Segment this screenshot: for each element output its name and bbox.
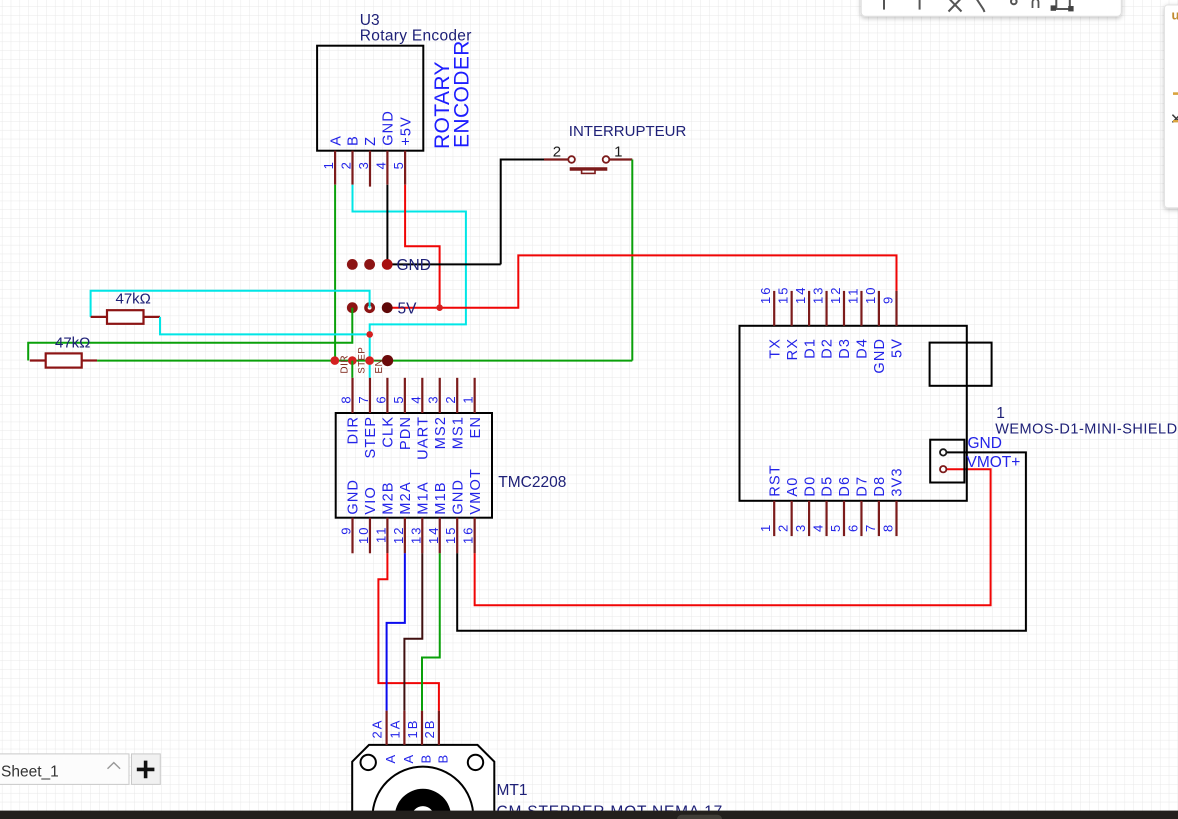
svg-text:1: 1 <box>461 394 476 403</box>
rotary encoder U3 body <box>317 46 423 151</box>
motor pin stub A <box>403 711 405 745</box>
net port 5V dots <box>347 302 393 313</box>
shield pin 10 stub <box>878 291 880 326</box>
svg-text:D8: D8 <box>872 476 888 497</box>
power connector pin GND circle <box>940 449 946 455</box>
svg-text:13: 13 <box>811 286 826 304</box>
shield pin 13 stub <box>825 291 827 326</box>
svg-text:2: 2 <box>339 160 354 169</box>
svg-text:UART: UART <box>416 416 432 460</box>
junction cyan STEP branch <box>366 331 373 338</box>
svg-text:5V: 5V <box>398 300 418 317</box>
wire M1A to motor 1A (dark) <box>404 553 422 710</box>
svg-text:B: B <box>435 754 450 764</box>
svg-text:2: 2 <box>776 523 791 532</box>
svg-text:47kΩ: 47kΩ <box>55 335 90 352</box>
svg-text:Sheet_1: Sheet_1 <box>1 763 59 780</box>
shield WEMOS-D1-MINI body <box>740 326 967 501</box>
wire encoder +5V (red) <box>405 185 440 308</box>
svg-text:6: 6 <box>845 523 860 532</box>
shield pin 3 stub <box>808 501 810 536</box>
svg-text:STEP: STEP <box>363 416 379 459</box>
shield pin 6 stub <box>860 501 862 536</box>
shield pin 11 stub <box>860 291 862 326</box>
wire 5V rail (red) <box>387 255 896 307</box>
svg-text:4: 4 <box>811 523 826 532</box>
motor pin stub A <box>386 711 388 745</box>
svg-text:15: 15 <box>443 526 458 544</box>
net port GND dots <box>347 259 393 270</box>
motor shaft hole ring <box>414 809 431 819</box>
svg-text:M2B: M2B <box>381 481 397 514</box>
switch pin 2 stub <box>544 158 568 160</box>
motor mounting hole right <box>468 755 483 770</box>
svg-text:5V: 5V <box>890 338 906 358</box>
svg-text:4: 4 <box>408 394 423 403</box>
svg-text:9: 9 <box>339 526 354 535</box>
svg-text:3V3: 3V3 <box>890 467 906 496</box>
svg-text:5: 5 <box>828 523 843 532</box>
U3 pin 1 (A) stub <box>334 151 336 185</box>
svg-text:+5V: +5V <box>398 116 414 146</box>
TMC2208 pin 10 stub <box>369 518 371 554</box>
right panel icon fragments <box>1170 8 1178 129</box>
shield pin 8 stub <box>895 501 897 536</box>
svg-text:B: B <box>346 135 362 146</box>
wire TMC VMOT to shield VMOT+ (red) <box>475 469 991 605</box>
wire TMC GND to shield GND (black) <box>457 452 1026 630</box>
wire M2A to motor 2A (blue) <box>387 553 405 710</box>
sheet tab Sheet_1 <box>0 754 129 785</box>
TMC2208 pin 1 stub <box>474 378 476 413</box>
svg-text:A: A <box>401 754 416 764</box>
svg-text:10: 10 <box>863 286 878 304</box>
shield USB connector box <box>930 343 992 386</box>
wire switch pin2 to GND (black) <box>501 160 544 265</box>
svg-text:7: 7 <box>356 394 371 403</box>
svg-text:ENCODER: ENCODER <box>451 40 474 148</box>
TMC2208 pin 9 stub <box>351 518 353 554</box>
svg-text:M1B: M1B <box>433 481 449 514</box>
svg-text:1: 1 <box>321 160 336 169</box>
svg-text:2B: 2B <box>422 719 437 739</box>
sheet tab chevron <box>108 763 121 769</box>
TMC2208 pin 13 stub <box>421 518 423 554</box>
svg-text:3: 3 <box>426 394 441 403</box>
shield pin 15 stub <box>791 291 793 326</box>
svg-text:DIR: DIR <box>346 416 362 445</box>
svg-text:1: 1 <box>996 405 1005 422</box>
shield pin 9 stub <box>895 291 897 326</box>
TMC2208 pin 6 stub <box>386 378 388 413</box>
svg-text:MS1: MS1 <box>450 416 466 449</box>
svg-text:2: 2 <box>443 394 458 403</box>
wire M1B to motor 1B (green) <box>422 553 440 710</box>
U3 pin 4 (GND) stub <box>386 151 388 185</box>
shield pin 12 stub <box>843 291 845 326</box>
TMC2208 pin 3 stub <box>439 378 441 413</box>
U3 pin 3 (Z) stub <box>369 151 371 187</box>
svg-text:2: 2 <box>553 144 561 161</box>
svg-text:u: u <box>1172 8 1178 23</box>
svg-text:6: 6 <box>373 394 388 403</box>
switch pin 2 terminal circle <box>568 156 575 163</box>
svg-text:VMOT+: VMOT+ <box>967 454 1021 471</box>
toolbar icon fragments <box>884 0 1074 12</box>
svg-text:3: 3 <box>793 523 808 532</box>
svg-text:TMC2208: TMC2208 <box>498 474 566 491</box>
svg-text:VMOT: VMOT <box>468 468 484 515</box>
driver TMC2208 body <box>336 413 492 518</box>
svg-text:10: 10 <box>356 526 371 544</box>
label ROTARY ENCODER (rotated) <box>431 40 474 149</box>
svg-text:D4: D4 <box>855 338 871 359</box>
svg-text:D7: D7 <box>855 476 871 497</box>
TMC2208 pin 8 stub <box>351 378 353 413</box>
add sheet plus icon <box>137 761 155 779</box>
svg-text:B: B <box>419 754 434 764</box>
wire R1 left to 5V (cyan) <box>91 291 370 317</box>
svg-text:WEMOS-D1-MINI-SHIELD: WEMOS-D1-MINI-SHIELD <box>995 422 1177 438</box>
svg-text:PDN: PDN <box>398 416 414 450</box>
svg-text:U3: U3 <box>360 12 380 29</box>
resistor R1 47k - leads <box>91 316 160 318</box>
svg-text:11: 11 <box>373 526 388 544</box>
svg-text:Z: Z <box>363 136 379 146</box>
svg-text:11: 11 <box>845 287 860 305</box>
TMC2208 pin 15 stub <box>456 518 458 554</box>
wire GND rail (black) <box>387 263 501 265</box>
svg-text:5: 5 <box>391 394 406 403</box>
wire switch pin1 down (green) <box>631 160 633 361</box>
svg-text:M1A: M1A <box>416 481 432 514</box>
svg-text:12: 12 <box>828 286 843 304</box>
resistor R2 47k - body <box>46 353 82 367</box>
svg-text:1: 1 <box>758 523 773 532</box>
svg-text:M2A: M2A <box>398 481 414 514</box>
svg-text:D2: D2 <box>820 338 836 359</box>
wire R1 right to STEP net (cyan) <box>160 317 370 335</box>
svg-text:INTERRUPTEUR: INTERRUPTEUR <box>569 123 687 140</box>
shield pin 2 stub <box>791 501 793 536</box>
TMC2208 pin 16 stub <box>474 518 476 554</box>
wire R2 right across DIR row to switch (green) <box>97 360 632 362</box>
svg-text:D5: D5 <box>820 476 836 497</box>
power connector box <box>930 440 964 483</box>
svg-text:8: 8 <box>881 523 896 532</box>
add sheet button <box>132 754 161 785</box>
svg-text:A0: A0 <box>785 476 801 496</box>
wire encoder A (green) <box>334 185 336 361</box>
shield pin 14 stub <box>808 291 810 326</box>
TMC2208 pin 5 stub <box>404 378 406 413</box>
svg-text:16: 16 <box>461 526 476 544</box>
wire M2B to motor 2B (red) <box>378 553 439 710</box>
svg-text:DIR: DIR <box>339 355 350 374</box>
power connector pin VMOT circle <box>940 466 946 472</box>
svg-text:14: 14 <box>426 526 441 544</box>
TMC2208 pin 4 stub <box>421 378 423 413</box>
svg-text:RX: RX <box>785 338 801 361</box>
motor pin stub B <box>438 711 440 745</box>
svg-text:1B: 1B <box>405 719 420 739</box>
shield pin 4 stub <box>825 501 827 536</box>
shield pin 5 stub <box>843 501 845 536</box>
resistor R1 47k - body <box>107 310 144 324</box>
junction 5V/red <box>436 304 443 311</box>
svg-text:GND: GND <box>346 479 362 515</box>
svg-text:VIO: VIO <box>363 486 379 515</box>
TMC2208 pin 7 stub <box>369 378 371 413</box>
svg-text:1A: 1A <box>387 719 402 739</box>
svg-text:12: 12 <box>391 526 406 544</box>
svg-text:GND: GND <box>397 257 431 274</box>
top toolbar <box>861 0 1121 16</box>
svg-text:✕: ✕ <box>1170 111 1178 128</box>
motor mounting hole left <box>361 755 376 770</box>
right floating panel <box>1165 5 1178 208</box>
svg-text:MS2: MS2 <box>433 416 449 449</box>
switch actuator bar <box>570 167 608 171</box>
motor shaft black disk <box>395 789 451 819</box>
wire encoder B (cyan) <box>353 185 466 378</box>
U3 pin 2 (B) stub <box>351 151 353 185</box>
motor body circle <box>373 767 474 819</box>
svg-text:47kΩ: 47kΩ <box>116 291 151 308</box>
svg-text:MT1: MT1 <box>497 782 528 799</box>
junction dots on DIR row <box>331 356 374 365</box>
TMC2208 pin 14 stub <box>439 518 441 554</box>
svg-text:CLK: CLK <box>381 416 397 448</box>
wire 5V to R2 (green) <box>28 308 352 361</box>
TMC2208 pin 12 stub <box>404 518 406 554</box>
svg-text:D6: D6 <box>837 476 853 497</box>
svg-text:16: 16 <box>758 286 773 304</box>
svg-text:14: 14 <box>793 286 808 304</box>
svg-text:2A: 2A <box>370 719 385 739</box>
svg-text:15: 15 <box>776 286 791 304</box>
TMC2208 pin 2 stub <box>456 378 458 413</box>
svg-text:D1: D1 <box>802 338 818 359</box>
svg-text:EN: EN <box>468 416 484 439</box>
svg-text:RST: RST <box>767 464 783 497</box>
svg-text:1: 1 <box>614 144 622 161</box>
motor pin stub B <box>421 711 423 745</box>
svg-text:5: 5 <box>391 160 406 169</box>
U3 pin 5 (+5V) stub <box>404 151 406 185</box>
net port EN dot (dark) <box>382 355 393 366</box>
shield pin 1 stub <box>773 501 775 536</box>
resistor R2 47k - leads <box>30 359 97 361</box>
svg-text:7: 7 <box>863 523 878 532</box>
svg-text:D3: D3 <box>837 338 853 359</box>
switch actuator tab <box>582 170 595 174</box>
svg-text:A: A <box>383 754 398 764</box>
svg-text:D0: D0 <box>802 476 818 497</box>
svg-text:3: 3 <box>356 160 371 169</box>
svg-text:TX: TX <box>767 338 783 359</box>
svg-text:GND: GND <box>968 435 1002 452</box>
svg-text:13: 13 <box>408 526 423 544</box>
wire encoder GND (black) <box>386 185 388 265</box>
svg-text:9: 9 <box>881 295 896 304</box>
bottom task bar <box>0 811 1178 819</box>
svg-text:GND: GND <box>872 338 888 374</box>
bottom bar button <box>677 815 722 819</box>
switch pin 1 terminal circle <box>603 156 610 163</box>
stepper motor MT1 flange <box>352 745 494 819</box>
shield pin 7 stub <box>878 501 880 536</box>
switch pin 1 stub <box>609 158 632 160</box>
TMC2208 pin 11 stub <box>386 518 388 554</box>
svg-text:GND: GND <box>381 110 397 146</box>
wire DIR down to TMC pin8 (green) <box>351 361 353 378</box>
svg-text:8: 8 <box>339 394 354 403</box>
svg-text:4: 4 <box>373 160 388 169</box>
shield pin 16 stub <box>773 291 775 326</box>
svg-text:GND: GND <box>450 479 466 515</box>
svg-text:A: A <box>328 135 344 146</box>
